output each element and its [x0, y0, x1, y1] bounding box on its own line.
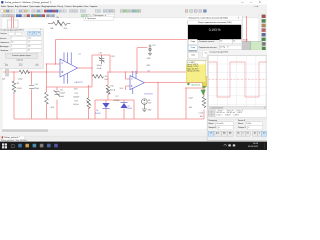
svg-text:C17: C17 — [115, 96, 118, 98]
capacitor C14 with pot arrow — [99, 55, 105, 64]
label U2 part — [74, 81, 83, 84]
label U3 refdes — [147, 71, 149, 73]
svg-text:15V: 15V — [152, 45, 156, 47]
potentiometer R12 — [107, 84, 110, 87]
svg-text:Кл=А: Кл=А — [59, 95, 64, 98]
wire R15 top — [106, 72, 110, 100]
label R15 — [110, 85, 116, 91]
wire U2 lower link — [46, 85, 92, 89]
svg-text:1.0kΩ: 1.0kΩ — [18, 79, 23, 81]
svg-text:0.1µF: 0.1µF — [188, 97, 192, 99]
label C15 R13 block — [73, 93, 80, 106]
svg-text:1kΩ: 1kΩ — [189, 107, 193, 109]
label Пробник1 — [187, 83, 201, 87]
svg-text:R6: R6 — [56, 17, 58, 19]
label C17 block — [113, 96, 121, 102]
svg-text:C16: C16 — [34, 84, 37, 86]
probe arrow secondary — [201, 90, 206, 96]
probe arrow Пробник1 — [202, 76, 207, 88]
label C11 — [59, 89, 66, 97]
label C14 value — [97, 65, 103, 70]
label C10 refdes — [2, 65, 5, 67]
label XDA1 refdes — [243, 38, 249, 41]
wire XFG1 output stub A — [9, 16, 13, 28]
svg-text:R9: R9 — [17, 83, 19, 85]
resistor R9 branch wire — [12, 72, 16, 119]
wire diode branch rect — [95, 100, 134, 119]
label R15 percent — [120, 88, 124, 90]
svg-text:1µF: 1µF — [2, 79, 6, 81]
svg-text:2200pF: 2200pF — [73, 97, 80, 99]
dc source V2 — [142, 99, 148, 112]
svg-text:50%: 50% — [120, 88, 124, 90]
svg-text:0.1µF: 0.1µF — [199, 113, 203, 115]
label R8 value — [18, 79, 23, 81]
wire XFG1 output stub B — [11, 16, 15, 28]
svg-text:U3: U3 — [147, 71, 149, 73]
svg-text:1kΩ_А: 1kΩ_А — [110, 88, 116, 91]
label U2 refdes — [78, 53, 80, 55]
label U3 part — [144, 93, 153, 95]
svg-text:45%: 45% — [74, 89, 78, 91]
capacitor C11 — [54, 90, 60, 96]
potentiometer R13 branch — [87, 86, 91, 119]
svg-text:C15: C15 — [74, 93, 77, 95]
op-amp U3 — [130, 71, 144, 94]
svg-text:UA741CP: UA741CP — [74, 81, 83, 84]
wire C14 box top — [92, 55, 110, 72]
wire top feedback net — [55, 38, 187, 42]
wire probe node vertical — [202, 83, 206, 119]
label R16 — [51, 107, 54, 109]
wire VB supply link — [137, 48, 147, 74]
svg-text:Кл=А: Кл=А — [97, 67, 102, 70]
svg-text:50%: 50% — [64, 28, 68, 30]
label C16 — [34, 84, 40, 90]
resistor R16 — [45, 92, 49, 104]
svg-text:R13: R13 — [74, 101, 77, 103]
potentiometer R15 — [106, 85, 110, 95]
svg-text:XDA1: XDA1 — [243, 38, 249, 41]
label V2 value — [148, 100, 152, 104]
capacitor C16 — [29, 85, 34, 88]
tooltip over schematic — [203, 50, 255, 57]
diode D3 — [102, 103, 109, 109]
svg-text:Пробник1: Пробник1 — [191, 85, 201, 87]
wire XDA1 input vertical — [244, 16, 248, 42]
label R6 refdes — [56, 17, 58, 19]
label divider net values — [188, 97, 192, 109]
label R9 — [17, 83, 22, 90]
resistor R16 branch — [44, 91, 48, 119]
op-amp U2 — [60, 52, 78, 83]
label R14 — [104, 76, 109, 81]
svg-text:U2: U2 — [78, 53, 80, 55]
wire output to bus vertical x790 — [156, 83, 160, 119]
svg-text:25%: 25% — [111, 56, 115, 58]
capacitor C16 branch wire — [30, 72, 34, 119]
svg-text:R16: R16 — [51, 107, 54, 109]
label R8 refdes — [20, 67, 22, 69]
svg-text:0.47µF: 0.47µF — [59, 93, 66, 95]
wire U2 output — [78, 66, 92, 70]
potentiometer R6 — [48, 20, 70, 26]
wire mid horizontal net — [110, 70, 187, 74]
svg-text:GND: GND — [146, 65, 151, 67]
svg-text:1N4148: 1N4148 — [95, 113, 101, 115]
wire feedback vertical x460 — [90, 55, 94, 87]
label VB 15V — [152, 45, 156, 47]
wire ground bus — [14, 117, 204, 121]
wire input net — [3, 70, 60, 74]
svg-text:1kΩ_А: 1kΩ_А — [73, 103, 79, 106]
resistor R17 — [202, 97, 206, 108]
svg-text:R15: R15 — [110, 85, 113, 87]
label GND mid — [146, 65, 151, 67]
label C14 refdes — [98, 53, 101, 55]
label D3 — [95, 110, 101, 115]
wire U3 input stubs — [126, 72, 130, 90]
wire U3 output net — [144, 81, 204, 85]
power node symbol VB — [148, 44, 152, 55]
svg-text:220pF: 220pF — [34, 88, 40, 90]
svg-text:15V: 15V — [148, 103, 152, 105]
label D4 — [126, 105, 132, 110]
label R13 percent — [74, 89, 78, 91]
svg-text:0.045µF: 0.045µF — [113, 100, 121, 102]
label GND upper — [147, 58, 152, 60]
svg-text:LM741CH: LM741CH — [144, 93, 153, 95]
svg-text:4.7kΩ: 4.7kΩ — [17, 88, 22, 90]
diode D4 — [120, 102, 127, 108]
svg-text:C14: C14 — [98, 53, 101, 55]
svg-text:1N4148: 1N4148 — [126, 108, 132, 110]
label R17 — [199, 113, 204, 118]
resistor R14 — [92, 75, 103, 79]
instrument icon XDA1 — [242, 42, 262, 56]
capacitor C11 variable branch — [55, 87, 59, 119]
svg-text:D4: D4 — [128, 105, 130, 107]
label C14 percent — [111, 56, 115, 58]
wire left vertical — [46, 40, 60, 91]
potentiometer R13 — [86, 98, 91, 109]
label C10 value — [2, 79, 6, 81]
svg-text:GND: GND — [147, 58, 152, 60]
resistor R9 — [12, 81, 16, 94]
junction dots — [13, 63, 187, 89]
svg-text:500pF: 500pF — [97, 65, 103, 67]
label R6 value — [50, 28, 68, 30]
svg-text:D3: D3 — [96, 110, 98, 112]
svg-text:GND: GND — [148, 109, 153, 111]
svg-text:1kΩ: 1kΩ — [50, 28, 54, 30]
resistor R8 — [19, 70, 30, 74]
label V2 GND — [148, 109, 153, 111]
wire output sense net — [186, 88, 204, 119]
svg-text:1kΩ: 1kΩ — [200, 116, 204, 118]
instrument icon XFG1 (behind dialog) — [7, 20, 18, 28]
svg-text:C11: C11 — [60, 89, 63, 91]
capacitor C10 — [6, 68, 8, 77]
svg-text:10kΩ: 10kΩ — [104, 79, 109, 81]
